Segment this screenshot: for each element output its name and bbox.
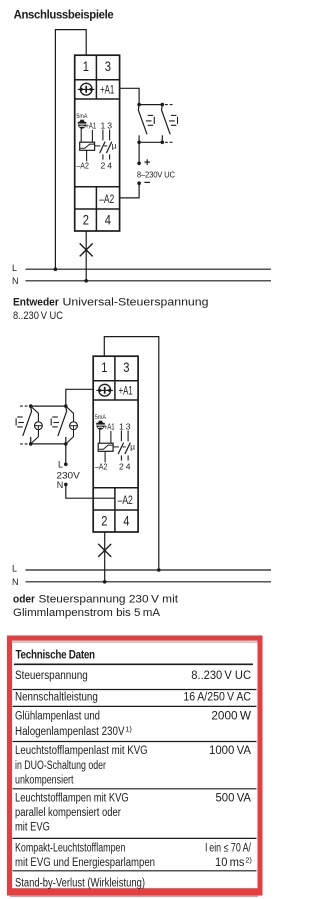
svg-text:1: 1 xyxy=(119,421,124,431)
internal pin 2 (d2) xyxy=(119,462,124,472)
bottom rail of pushbuttons xyxy=(139,141,162,143)
contact 1-2 (d2) xyxy=(118,431,123,461)
label N (d2) xyxy=(12,577,19,587)
contact 3-4 (d2) xyxy=(125,431,130,461)
wire glow lamp to coil xyxy=(80,128,82,142)
svg-text:in DUO-Schaltung oder: in DUO-Schaltung oder xyxy=(15,760,106,772)
svg-text:Leuchtstofflampenlast mit KVG: Leuchtstofflampenlast mit KVG xyxy=(15,745,148,757)
internal pin 3 xyxy=(107,120,112,130)
svg-text:16 A/250 V AC: 16 A/250 V AC xyxy=(183,692,251,704)
svg-text:Steuerspannung 230 V mit: Steuerspannung 230 V mit xyxy=(39,594,179,606)
svg-text:1: 1 xyxy=(101,120,106,130)
junction dots top rail xyxy=(137,103,164,107)
red highlight frame xyxy=(7,638,263,896)
glow lamp icon (d2) xyxy=(96,421,105,430)
terminal 1 xyxy=(83,58,89,74)
junction on L bus xyxy=(54,267,58,271)
L bus line xyxy=(26,268,272,270)
wire terminal 2 to N bus xyxy=(85,231,87,281)
lamp load E1 (X symbol, d2) xyxy=(98,544,111,557)
svg-text:Entweder: Entweder xyxy=(13,297,59,309)
svg-text:3: 3 xyxy=(123,359,129,375)
svg-text:Stand-by-Verlust (Wirkleistung: Stand-by-Verlust (Wirkleistung) xyxy=(15,878,145,890)
junction dots bottom rail (d2) xyxy=(29,442,68,446)
node L supply xyxy=(58,460,68,470)
contact 3-4 xyxy=(106,130,111,160)
terminal 1 (d2) xyxy=(101,359,107,375)
junction dots top rail (d2) xyxy=(29,404,68,408)
svg-text:parallel kompensiert oder: parallel kompensiert oder xyxy=(15,807,121,819)
label 5mA (glow current) xyxy=(76,113,87,120)
internal pin 4 (d2) xyxy=(126,462,131,472)
supply label 230V xyxy=(56,470,80,481)
svg-text:L: L xyxy=(12,263,17,273)
row: Nennschaltleistung xyxy=(15,692,251,704)
wire +A1 to coil (d2) xyxy=(110,431,112,443)
wire terminal 2 to N bus (d2) xyxy=(104,532,106,582)
terminal label +A1 (d2) xyxy=(119,386,133,398)
wire +A1 to pushbuttons (d2) xyxy=(66,389,93,406)
junction on N bus (d2) xyxy=(103,580,107,584)
micro-gap label µ (d2) xyxy=(130,441,135,451)
title Anschlussbeispiele xyxy=(14,9,114,21)
svg-text:+A1: +A1 xyxy=(104,421,115,431)
svg-text:N: N xyxy=(12,276,19,286)
node N supply xyxy=(57,480,68,490)
wire terminal 1 up and over to L bus xyxy=(104,337,159,570)
svg-text:500 VA: 500 VA xyxy=(216,792,252,804)
svg-text:unkompensiert: unkompensiert xyxy=(15,774,74,786)
svg-text:Kompakt-Leuchtstofflampen: Kompakt-Leuchtstofflampen xyxy=(15,842,125,854)
svg-text:N: N xyxy=(57,480,64,490)
svg-text:Leuchtstofflampen mit KVG: Leuchtstofflampen mit KVG xyxy=(15,792,129,804)
svg-text:4: 4 xyxy=(123,512,129,528)
terminal label -A2 (d2) xyxy=(118,495,133,507)
svg-text:mit EVG: mit EVG xyxy=(15,821,50,833)
mechanical link (d2) xyxy=(113,446,126,448)
svg-text:+A1: +A1 xyxy=(85,120,96,130)
svg-text:–A2: –A2 xyxy=(118,495,133,507)
svg-text:2): 2) xyxy=(245,855,252,864)
internal pin 1 xyxy=(101,120,106,130)
internal label -A2 xyxy=(76,161,89,171)
svg-text:Glühlampenlast und: Glühlampenlast und xyxy=(15,710,100,722)
svg-text:3: 3 xyxy=(126,421,131,431)
wire glow lamp to coil (d2) xyxy=(99,429,101,443)
svg-text:Technische Daten: Technische Daten xyxy=(16,649,96,661)
svg-text:2000 W: 2000 W xyxy=(211,710,251,722)
device box (diagram 2) xyxy=(93,356,138,532)
svg-text:10 ms: 10 ms xyxy=(215,857,245,869)
svg-text:8..230 V UC: 8..230 V UC xyxy=(13,310,63,322)
wire N supply to -A2 (d2) xyxy=(66,484,115,498)
pushbutton S1 with glow lamp (d2) xyxy=(16,406,43,444)
svg-text:5mA: 5mA xyxy=(95,414,106,421)
svg-text:Anschlussbeispiele: Anschlussbeispiele xyxy=(14,9,114,21)
supply label 8-230V UC xyxy=(137,170,175,179)
mechanical link coil to contacts xyxy=(95,145,108,147)
svg-text:+A1: +A1 xyxy=(100,85,114,97)
top rail of pushbuttons xyxy=(139,104,162,106)
terminal 4 (d2) xyxy=(123,512,129,528)
wire to + supply terminal xyxy=(138,142,140,163)
svg-text:1000 VA: 1000 VA xyxy=(209,745,251,757)
svg-text:+A1: +A1 xyxy=(119,386,133,398)
separator xyxy=(13,741,257,743)
terminal label +A1 xyxy=(100,85,114,97)
wire to L supply node (d2) xyxy=(65,444,67,464)
terminal 4 xyxy=(105,211,111,227)
svg-text:Steuerspannung: Steuerspannung xyxy=(15,670,88,682)
junction on L bus (diagram 2) xyxy=(157,568,161,572)
pushbutton S2 with glow lamp (d2) xyxy=(51,406,78,444)
label N xyxy=(12,276,19,286)
svg-text:2: 2 xyxy=(101,512,107,528)
internal pin 2 xyxy=(101,161,106,171)
separator xyxy=(13,837,257,839)
svg-text:1: 1 xyxy=(101,359,107,375)
glow lamp icon xyxy=(78,120,87,129)
junction on N bus xyxy=(84,279,88,283)
separator xyxy=(13,788,257,790)
impulse switch function symbol (circle with arrows) xyxy=(78,83,95,95)
svg-text:Halogenlampenlast 230V: Halogenlampenlast 230V xyxy=(15,726,125,738)
svg-text:3: 3 xyxy=(107,120,112,130)
internal pin 4 xyxy=(107,161,112,171)
N bus line (d2) xyxy=(26,581,272,583)
label L xyxy=(12,263,17,273)
internal pin 3 (d2) xyxy=(126,421,131,431)
separator xyxy=(13,689,257,691)
svg-text:Glimmlampenstrom bis 5 mA: Glimmlampenstrom bis 5 mA xyxy=(13,607,161,619)
svg-text:3: 3 xyxy=(105,58,111,74)
shadow under top border xyxy=(12,641,258,644)
separator xyxy=(13,705,257,707)
node - supply xyxy=(137,181,150,185)
terminal 2 (d2) xyxy=(101,512,107,528)
wire coil to -A2 (d2) xyxy=(104,451,106,462)
svg-text:–A2: –A2 xyxy=(99,194,114,206)
pushbutton S2 xyxy=(162,105,178,143)
impulse switch function symbol (d2) xyxy=(96,384,113,396)
node + supply xyxy=(137,159,150,165)
device box (diagram 1) xyxy=(75,55,120,231)
svg-text:2: 2 xyxy=(119,462,124,472)
wire from terminal 1 up and left to L bus xyxy=(55,30,86,270)
svg-text:5mA: 5mA xyxy=(76,113,87,120)
svg-text:4: 4 xyxy=(105,211,111,227)
svg-text:–A2: –A2 xyxy=(76,161,89,171)
svg-text:L: L xyxy=(12,564,17,574)
internal label -A2 (d2) xyxy=(95,462,108,472)
dashed continuation bottom rail xyxy=(165,141,174,143)
micro-gap label µ xyxy=(112,140,117,150)
wire coil to -A2 xyxy=(86,150,88,161)
svg-text:8–230V UC: 8–230V UC xyxy=(137,170,175,179)
caption diagram 2 xyxy=(13,594,178,619)
shadow under bottom border xyxy=(10,895,258,897)
row: Kompakt-Leuchtstofflampen xyxy=(15,842,252,868)
contact 1-2 xyxy=(100,130,105,160)
svg-text:mit EVG und Energiesparlampen: mit EVG und Energiesparlampen xyxy=(15,857,155,869)
svg-text:Nennschaltleistung: Nennschaltleistung xyxy=(15,692,98,704)
svg-text:2: 2 xyxy=(83,211,89,227)
separator xyxy=(13,870,257,872)
row: Leuchtstofflampen KVG parallel xyxy=(15,792,251,833)
wire - supply to -A2 xyxy=(120,183,139,198)
label 5mA (d2) xyxy=(95,414,106,421)
internal pin 1 (d2) xyxy=(119,421,124,431)
table header xyxy=(16,649,96,661)
label L (d2) xyxy=(12,564,17,574)
svg-text:2: 2 xyxy=(101,161,106,171)
terminal 3 (d2) xyxy=(123,359,129,375)
svg-text:µ: µ xyxy=(130,441,135,451)
row: Stand-by xyxy=(15,878,145,890)
svg-text:µ: µ xyxy=(112,140,117,150)
svg-text:8..230 V UC: 8..230 V UC xyxy=(191,670,251,682)
internal label +A1 xyxy=(85,120,96,130)
svg-text:4: 4 xyxy=(126,462,131,472)
terminal 2 xyxy=(83,211,89,227)
svg-text:1: 1 xyxy=(83,58,89,74)
relay coil K1 xyxy=(80,142,95,150)
dashed continuation top rail xyxy=(165,104,174,106)
bottom rail (d2) xyxy=(31,443,66,445)
pushbutton S1 xyxy=(138,105,154,143)
dashed continuation top rail (d2) xyxy=(20,405,28,407)
row: Steuerspannung xyxy=(15,670,251,682)
svg-text:Universal-Steuerspannung: Universal-Steuerspannung xyxy=(63,297,209,309)
svg-text:1): 1) xyxy=(125,724,132,733)
svg-text:–A2: –A2 xyxy=(95,462,108,472)
top rail (d2) xyxy=(31,405,66,407)
caption diagram 1 xyxy=(13,297,209,322)
N bus line xyxy=(26,280,272,282)
svg-text:4: 4 xyxy=(107,161,112,171)
svg-text:N: N xyxy=(12,577,19,587)
svg-text:oder: oder xyxy=(13,594,36,606)
terminal label -A2 xyxy=(99,194,114,206)
row: Leuchtstofflampenlast KVG DUO xyxy=(15,745,251,786)
relay coil K1 (d2) xyxy=(98,443,113,451)
svg-text:L: L xyxy=(58,460,63,470)
L bus line (d2) xyxy=(26,569,272,571)
lamp load E1 (X symbol) xyxy=(80,243,93,256)
internal label +A1 (d2) xyxy=(104,421,115,431)
junction dots bottom rail xyxy=(137,141,164,145)
header underline xyxy=(14,663,253,665)
row: Gluehlampenlast xyxy=(15,710,251,738)
svg-text:I ein ≤ 70 A/: I ein ≤ 70 A/ xyxy=(205,842,252,854)
wire +A1 to coil xyxy=(91,130,93,142)
terminal 3 xyxy=(105,58,111,74)
dashed continuation bottom rail (d2) xyxy=(20,443,28,445)
wire +A1 to pushbuttons xyxy=(120,88,139,104)
